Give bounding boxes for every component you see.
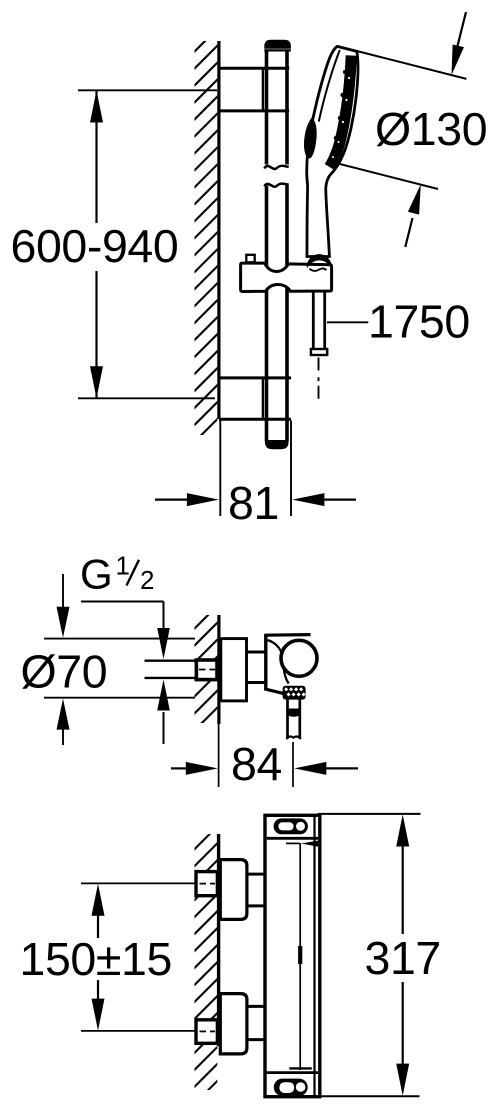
- dimension 81: [155, 421, 356, 517]
- label 600-940: [11, 220, 179, 272]
- svg-text:600-940: 600-940: [11, 220, 179, 272]
- hose connector checkered block: [283, 686, 306, 700]
- svg-text:317: 317: [365, 932, 441, 984]
- lower inlet union block: [220, 994, 247, 1054]
- rail break squiggle: [264, 166, 288, 187]
- shower head face inner edge line: [319, 50, 340, 122]
- hose centerline extension middle: [292, 742, 294, 787]
- wall face line bottom drawing: [217, 834, 220, 1046]
- hand shower head and handle: [307, 46, 358, 256]
- svg-text:Ø70: Ø70: [21, 646, 108, 698]
- dimension 84: [171, 724, 358, 787]
- dimension diameter 70: [44, 574, 195, 745]
- label diameter 130: [375, 103, 487, 155]
- escutcheon middle drawing: [221, 639, 247, 701]
- holder knob: [246, 255, 254, 262]
- handle end cap arc in holder: [307, 254, 332, 271]
- lower inlet wall socket: [196, 1020, 217, 1044]
- dimension diameter 130 diagonal lines: [328, 46, 466, 189]
- svg-text:G: G: [80, 551, 113, 598]
- centerline top marker arrow: [286, 841, 318, 847]
- shower valve neck: [247, 652, 265, 683]
- dimension 150 plus-minus 15: [81, 883, 196, 1031]
- wall face line middle drawing: [217, 615, 220, 724]
- svg-text:81: 81: [228, 477, 279, 529]
- label 81: [228, 477, 279, 529]
- shower valve body: [264, 635, 310, 697]
- hose centerline dash-dot: [318, 358, 320, 400]
- wall socket fitting middle: [196, 660, 217, 680]
- label 84: [231, 738, 282, 790]
- dimension diameter 130 top arrow: [452, 12, 467, 75]
- dimension 600-940: [78, 90, 217, 398]
- label G 1/2: [80, 551, 154, 598]
- thermostat centerline: [289, 843, 311, 1070]
- dimension G 1/2 leader and arrows: [81, 602, 170, 745]
- svg-text:1: 1: [116, 551, 130, 581]
- svg-text:2: 2: [140, 565, 154, 595]
- hand shower hose (top drawing): [311, 290, 327, 355]
- wall hatch top drawing: [195, 41, 218, 435]
- upper inlet union block: [220, 860, 247, 920]
- thermostat body outline: [265, 815, 320, 1096]
- G 1/2 pipe stub: [145, 661, 198, 678]
- thermostat top pill icon: [274, 818, 308, 834]
- svg-text:1750: 1750: [368, 296, 470, 348]
- svg-text:Ø130: Ø130: [375, 103, 487, 155]
- middle hose tube: [286, 700, 301, 739]
- wall face line top drawing: [217, 41, 220, 419]
- thermostat bottom pill icon: [274, 1079, 308, 1096]
- upper inlet neck: [248, 874, 266, 906]
- upper inlet wall socket: [196, 872, 217, 896]
- leader line 1750: [327, 321, 368, 323]
- valve knob circle: [281, 640, 317, 676]
- wall hatch middle drawing: [195, 615, 218, 723]
- rail top end cap: [264, 40, 291, 51]
- shower rail tube: [267, 50, 288, 441]
- label 1750: [368, 296, 470, 348]
- hose nut band: [286, 709, 301, 717]
- label 150 plus-minus 15: [20, 933, 172, 985]
- shower handle grip blob: [304, 118, 317, 159]
- rail bottom end cap: [265, 440, 289, 449]
- shower rail bottom bracket: [219, 378, 291, 419]
- shower head spray face stipple band: [330, 56, 352, 168]
- wall hatch bottom drawing: [195, 834, 218, 1090]
- svg-text:150±15: 150±15: [20, 933, 172, 985]
- shower holder slider: [241, 263, 332, 291]
- dimension diameter 130 bottom arrow: [405, 184, 421, 247]
- lower inlet neck: [248, 1006, 266, 1039]
- label diameter 70: [21, 646, 108, 698]
- dimension 317: [318, 814, 421, 1096]
- shower rail top bracket: [219, 68, 289, 111]
- label 317: [365, 932, 441, 984]
- svg-text:84: 84: [231, 738, 282, 790]
